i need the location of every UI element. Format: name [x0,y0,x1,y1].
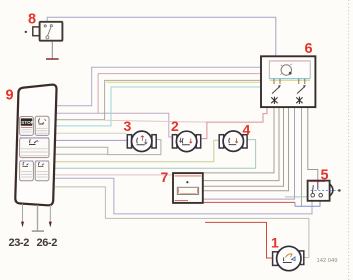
ground symbol of switch 8 [46,41,59,59]
svg-text:7: 7 [161,169,169,185]
wire: link down (blue) [294,202,296,206]
wire W1: panel to unit 6 (violet) [55,67,261,106]
wire: red long to motor 1 left tab [205,222,272,258]
wire P1: unit 6 to box 7 top corner (grey) [203,107,274,172]
svg-text:2: 2 [171,118,179,134]
button top-right [35,116,49,135]
svg-text:3: 3 [124,118,132,134]
svg-text:23-2: 23-2 [9,237,30,249]
wire P2: unit 6 to resistor lead in box 7 (grey) [187,107,279,187]
button middle wide [20,138,49,158]
wire P6: unit 6 down to blue wire (grey, long vertical) [301,107,303,206]
panel 9 leads: connector arrows and ground [21,204,52,232]
wire W10: panel to motor 4 right tab (teal) [55,140,256,169]
button STOP [20,117,34,136]
svg-text:9: 9 [6,88,14,104]
svg-text:1: 1 [271,235,279,251]
wire W12: panel to unit 5 bottom (violet, long) [55,178,312,214]
wire: red stub from box 7 bottom [203,201,295,203]
wire: faint pink companion line across motors [105,120,207,122]
page border dotted right edge [348,0,350,280]
wire P7: unit 6 to unit 5 top (grey) [308,107,318,180]
wire: motor 1 right tab jog [304,257,309,259]
wire W11: panel to relay box 7 (pale pink) [55,174,173,176]
motor 3 (front-rear) [127,131,156,151]
button bottom-left [20,161,34,181]
wire W2: panel to unit 6 and motor 2 left (pink-violet) [55,113,173,137]
wire P3: unit 6 to box 7 (grey-brown) [203,107,284,186]
control panel 9 [15,85,56,206]
relay unit 6 [261,56,315,107]
switch 8 [25,22,63,41]
svg-text:8: 8 [28,12,36,28]
wire W6: panel to motor 3 left tab (violet) [55,139,127,141]
svg-text:142 049: 142 049 [317,258,338,264]
wire: teal stub into unit 5 left [285,196,308,198]
resistor box 7 [173,173,203,203]
wire P4: unit 6 to box 7 (brown) [203,107,289,190]
wire W3: panel to unit 6 (grey) [55,80,261,119]
button bottom-right [35,161,49,181]
svg-text:4: 4 [243,122,251,138]
wire W2 riser to unit 6 [98,74,261,114]
connector unit 5 [308,181,341,201]
wire W9: panel to motor 4 left tab (olive) [55,140,219,162]
wire: motor 2 right tab to unit 6 (pink) [201,107,267,138]
wire W8: panel stub (grey) [55,153,108,155]
wire W13: panel to motor 1 right tab (grey-green, long) [55,187,309,258]
wire W4: panel to unit 6 (cyan) [55,87,261,126]
wire: blue under unit 5 [295,201,320,206]
svg-text:5: 5 [321,167,329,183]
motor 4 (height rear) [219,131,247,151]
svg-text:26-2: 26-2 [37,237,58,249]
wire: switch 8 to unit 6 (violet, top) [47,17,276,56]
wire P5: unit 6 to box 7 (violet) [203,107,295,199]
svg-text:STOP: STOP [21,120,33,125]
wire W3b: yellow companion [106,81,261,83]
wire W7: panel to motor 3 right tab (grey, stepped) [55,140,161,155]
svg-text:6: 6 [305,41,313,57]
motor 1 (rear, lumbar) [273,246,304,270]
wire W5: panel to motor 3 (faint grey) [55,132,127,134]
motor 2 (height front) [172,131,200,151]
